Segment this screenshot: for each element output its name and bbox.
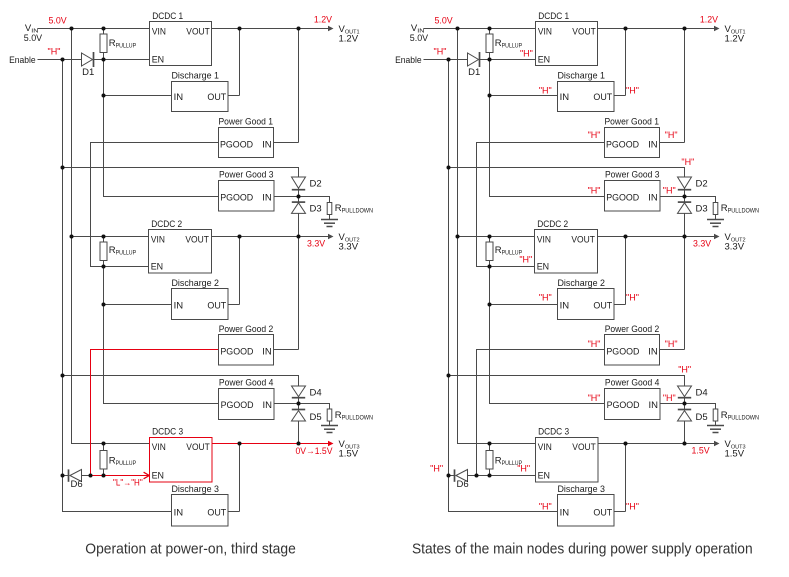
svg-text:Power Good 2: Power Good 2 <box>605 324 660 335</box>
svg-text:D6: D6 <box>457 479 469 490</box>
svg-text:DCDC 2: DCDC 2 <box>151 219 182 230</box>
svg-text:D4: D4 <box>696 388 708 399</box>
svg-text:PGOOD: PGOOD <box>220 193 253 204</box>
svg-text:PGOOD: PGOOD <box>606 139 639 150</box>
svg-text:"H": "H" <box>539 502 552 512</box>
svg-text:D5: D5 <box>696 412 708 423</box>
svg-text:Discharge 2: Discharge 2 <box>558 278 606 289</box>
svg-text:1.5V: 1.5V <box>725 449 745 460</box>
svg-text:1.2V: 1.2V <box>725 34 745 45</box>
svg-text:IN: IN <box>174 300 184 311</box>
svg-text:IN: IN <box>648 139 658 150</box>
svg-text:"H": "H" <box>665 130 678 140</box>
svg-text:Operation at power-on, third s: Operation at power-on, third stage <box>85 542 295 558</box>
svg-text:Power Good 4: Power Good 4 <box>605 377 660 388</box>
svg-text:OUT: OUT <box>593 300 612 311</box>
svg-text:IN: IN <box>262 346 272 357</box>
svg-text:EN: EN <box>152 54 165 65</box>
svg-text:D3: D3 <box>696 203 708 214</box>
svg-text:"H": "H" <box>663 393 676 403</box>
svg-text:EN: EN <box>538 54 551 65</box>
svg-text:PGOOD: PGOOD <box>221 400 254 411</box>
svg-text:IN: IN <box>648 346 658 357</box>
svg-text:DCDC 1: DCDC 1 <box>538 11 569 22</box>
svg-text:"H": "H" <box>588 186 601 196</box>
svg-text:D3: D3 <box>310 203 322 214</box>
svg-text:Discharge 2: Discharge 2 <box>172 278 220 289</box>
svg-text:0V→1.5V: 0V→1.5V <box>296 446 334 457</box>
svg-text:Discharge 1: Discharge 1 <box>172 70 220 81</box>
svg-text:VOUT: VOUT <box>571 235 595 246</box>
svg-text:IN: IN <box>649 400 659 411</box>
svg-text:"H": "H" <box>434 47 447 57</box>
svg-text:IN: IN <box>560 300 570 311</box>
svg-text:Power Good 4: Power Good 4 <box>219 377 274 388</box>
svg-text:5.0V: 5.0V <box>435 16 454 27</box>
svg-text:VIN: VIN <box>152 27 166 38</box>
svg-text:Power Good 3: Power Good 3 <box>605 169 660 180</box>
svg-text:1.2V: 1.2V <box>314 15 333 26</box>
svg-text:Power Good 1: Power Good 1 <box>219 117 274 128</box>
svg-text:VIN: VIN <box>152 442 166 453</box>
svg-text:5.0V: 5.0V <box>24 33 43 44</box>
svg-text:Enable: Enable <box>9 55 35 66</box>
svg-text:5.0V: 5.0V <box>49 16 68 27</box>
svg-text:"H": "H" <box>678 365 691 375</box>
svg-text:D1: D1 <box>82 67 94 78</box>
svg-text:"H": "H" <box>519 254 532 264</box>
svg-text:IN: IN <box>263 400 273 411</box>
svg-text:IN: IN <box>174 508 184 519</box>
svg-text:Discharge 1: Discharge 1 <box>558 70 606 81</box>
svg-text:DCDC 3: DCDC 3 <box>538 427 569 438</box>
svg-text:VIN: VIN <box>538 27 552 38</box>
svg-text:"H": "H" <box>517 463 530 473</box>
svg-text:Power Good 3: Power Good 3 <box>219 169 274 180</box>
svg-text:"L"→"H": "L"→"H" <box>113 478 143 488</box>
svg-text:IN: IN <box>262 193 272 204</box>
svg-text:OUT: OUT <box>207 92 226 103</box>
svg-text:1.5V: 1.5V <box>339 449 359 460</box>
svg-text:Enable: Enable <box>395 55 422 66</box>
svg-text:"H": "H" <box>430 463 443 473</box>
svg-text:DCDC 1: DCDC 1 <box>152 11 183 22</box>
svg-text:"H": "H" <box>663 186 676 196</box>
svg-text:D4: D4 <box>310 388 322 399</box>
svg-text:VOUT: VOUT <box>572 442 596 453</box>
svg-text:PGOOD: PGOOD <box>607 400 640 411</box>
svg-text:3.3V: 3.3V <box>693 239 712 250</box>
svg-text:PGOOD: PGOOD <box>606 346 639 357</box>
svg-text:PGOOD: PGOOD <box>220 139 253 150</box>
svg-text:"H": "H" <box>626 86 639 96</box>
svg-text:OUT: OUT <box>593 92 612 103</box>
svg-text:Discharge 3: Discharge 3 <box>172 484 220 495</box>
svg-text:VOUT: VOUT <box>572 27 596 38</box>
svg-text:EN: EN <box>537 262 550 273</box>
svg-text:Discharge 3: Discharge 3 <box>558 484 606 495</box>
svg-text:"H": "H" <box>539 86 552 96</box>
svg-text:D1: D1 <box>468 67 480 78</box>
svg-text:3.3V: 3.3V <box>725 242 745 253</box>
svg-text:1.2V: 1.2V <box>339 34 359 45</box>
svg-text:IN: IN <box>648 193 658 204</box>
svg-text:OUT: OUT <box>207 300 226 311</box>
svg-text:States of the main nodes durin: States of the main nodes during power su… <box>412 542 753 558</box>
svg-text:3.3V: 3.3V <box>307 239 326 250</box>
svg-text:EN: EN <box>151 262 164 273</box>
svg-text:1.2V: 1.2V <box>700 15 719 26</box>
svg-text:5.0V: 5.0V <box>410 33 429 44</box>
svg-text:VOUT: VOUT <box>185 235 209 246</box>
svg-text:"H": "H" <box>588 339 601 349</box>
svg-text:1.5V: 1.5V <box>692 446 711 457</box>
svg-text:EN: EN <box>152 470 165 481</box>
svg-text:"H": "H" <box>588 130 601 140</box>
svg-text:IN: IN <box>560 508 570 519</box>
svg-text:"H": "H" <box>665 339 678 349</box>
svg-text:"H": "H" <box>588 393 601 403</box>
svg-text:VIN: VIN <box>538 442 552 453</box>
svg-text:IN: IN <box>174 92 184 103</box>
svg-text:Power Good 1: Power Good 1 <box>605 117 660 128</box>
svg-text:D2: D2 <box>310 179 322 190</box>
svg-text:DCDC 2: DCDC 2 <box>537 219 568 230</box>
svg-text:PGOOD: PGOOD <box>606 193 639 204</box>
svg-text:"H": "H" <box>48 47 61 57</box>
svg-text:"H": "H" <box>520 48 533 58</box>
svg-text:"H": "H" <box>626 293 639 303</box>
svg-text:D6: D6 <box>71 479 83 490</box>
svg-text:VIN: VIN <box>151 235 165 246</box>
svg-text:"H": "H" <box>539 293 552 303</box>
svg-text:D5: D5 <box>310 412 322 423</box>
svg-text:DCDC 3: DCDC 3 <box>152 427 183 438</box>
svg-text:PGOOD: PGOOD <box>220 346 253 357</box>
svg-text:"H": "H" <box>681 157 694 167</box>
svg-text:3.3V: 3.3V <box>339 242 359 253</box>
svg-text:VIN: VIN <box>537 235 551 246</box>
svg-text:VOUT: VOUT <box>186 27 210 38</box>
svg-text:D2: D2 <box>696 179 708 190</box>
svg-text:"H": "H" <box>626 502 639 512</box>
svg-text:OUT: OUT <box>593 508 612 519</box>
svg-text:Power Good 2: Power Good 2 <box>219 324 274 335</box>
svg-text:IN: IN <box>262 139 272 150</box>
svg-text:IN: IN <box>560 92 570 103</box>
svg-text:EN: EN <box>538 470 551 481</box>
svg-text:VOUT: VOUT <box>186 442 210 453</box>
svg-text:OUT: OUT <box>207 508 226 519</box>
